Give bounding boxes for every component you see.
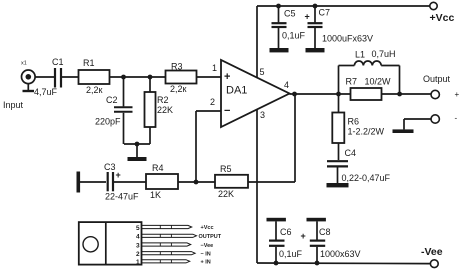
svg-text:C7: C7 (319, 8, 331, 18)
svg-text:R3: R3 (171, 62, 183, 72)
svg-text:− IN: − IN (201, 251, 211, 257)
svg-text:10/2W: 10/2W (365, 77, 392, 87)
svg-text:1: 1 (136, 259, 140, 266)
svg-text:5: 5 (136, 225, 140, 232)
svg-text:R2: R2 (157, 95, 169, 105)
svg-text:+: + (455, 90, 460, 99)
svg-text:R7: R7 (346, 77, 358, 87)
svg-text:4: 4 (284, 80, 289, 90)
svg-text:+: + (224, 71, 230, 83)
svg-text:-Vee: -Vee (421, 246, 443, 258)
svg-text:+Vcc: +Vcc (430, 12, 455, 24)
svg-text:-: - (455, 114, 458, 123)
svg-text:C1: C1 (52, 57, 64, 67)
svg-text:2,2к: 2,2к (86, 85, 103, 95)
svg-text:+: + (305, 12, 310, 22)
svg-text:+Vcc: +Vcc (201, 225, 214, 231)
svg-text:22-47uF: 22-47uF (105, 192, 139, 202)
svg-text:DA1: DA1 (226, 85, 247, 97)
svg-text:1: 1 (212, 63, 217, 73)
svg-text:2: 2 (136, 251, 140, 258)
svg-text:1K: 1K (150, 190, 161, 200)
svg-text:220pF: 220pF (95, 117, 121, 127)
svg-text:C3: C3 (104, 162, 116, 172)
svg-text:22K: 22K (218, 189, 234, 199)
svg-text:+: + (301, 231, 306, 241)
svg-text:+: + (116, 170, 121, 180)
svg-text:4: 4 (136, 234, 140, 241)
svg-text:0,1uF: 0,1uF (279, 249, 303, 259)
svg-text:C4: C4 (345, 148, 357, 158)
svg-text:R1: R1 (83, 58, 95, 68)
svg-text:1-2.2/2W: 1-2.2/2W (348, 127, 385, 137)
svg-text:R4: R4 (152, 163, 164, 173)
svg-text:+ IN: + IN (201, 260, 211, 266)
svg-text:4,7uF: 4,7uF (34, 87, 58, 97)
svg-text:22K: 22K (157, 105, 173, 115)
svg-text:−: − (224, 105, 230, 117)
svg-text:R5: R5 (220, 164, 232, 174)
svg-text:R6: R6 (348, 117, 360, 127)
svg-text:C5: C5 (284, 9, 296, 19)
svg-text:2,2к: 2,2к (170, 84, 187, 94)
svg-text:2: 2 (210, 97, 215, 107)
svg-text:OUTPUT: OUTPUT (199, 234, 222, 240)
svg-text:5: 5 (260, 67, 265, 77)
svg-text:x1: x1 (21, 61, 27, 67)
svg-text:Output: Output (423, 74, 451, 84)
svg-text:0,7uH: 0,7uH (372, 49, 396, 59)
svg-text:C2: C2 (106, 95, 118, 105)
svg-text:Input: Input (3, 100, 24, 110)
svg-text:3: 3 (260, 110, 265, 120)
svg-text:C8: C8 (319, 227, 331, 237)
svg-text:0,22-0,47uF: 0,22-0,47uF (342, 173, 391, 183)
svg-text:C6: C6 (280, 227, 292, 237)
svg-text:3: 3 (136, 242, 140, 249)
svg-text:1000x63V: 1000x63V (320, 249, 361, 259)
svg-text:0,1uF: 0,1uF (282, 31, 306, 41)
svg-text:L1: L1 (355, 50, 365, 60)
svg-text:1000uFx63V: 1000uFx63V (322, 34, 373, 44)
svg-text:−Vee: −Vee (201, 243, 214, 249)
